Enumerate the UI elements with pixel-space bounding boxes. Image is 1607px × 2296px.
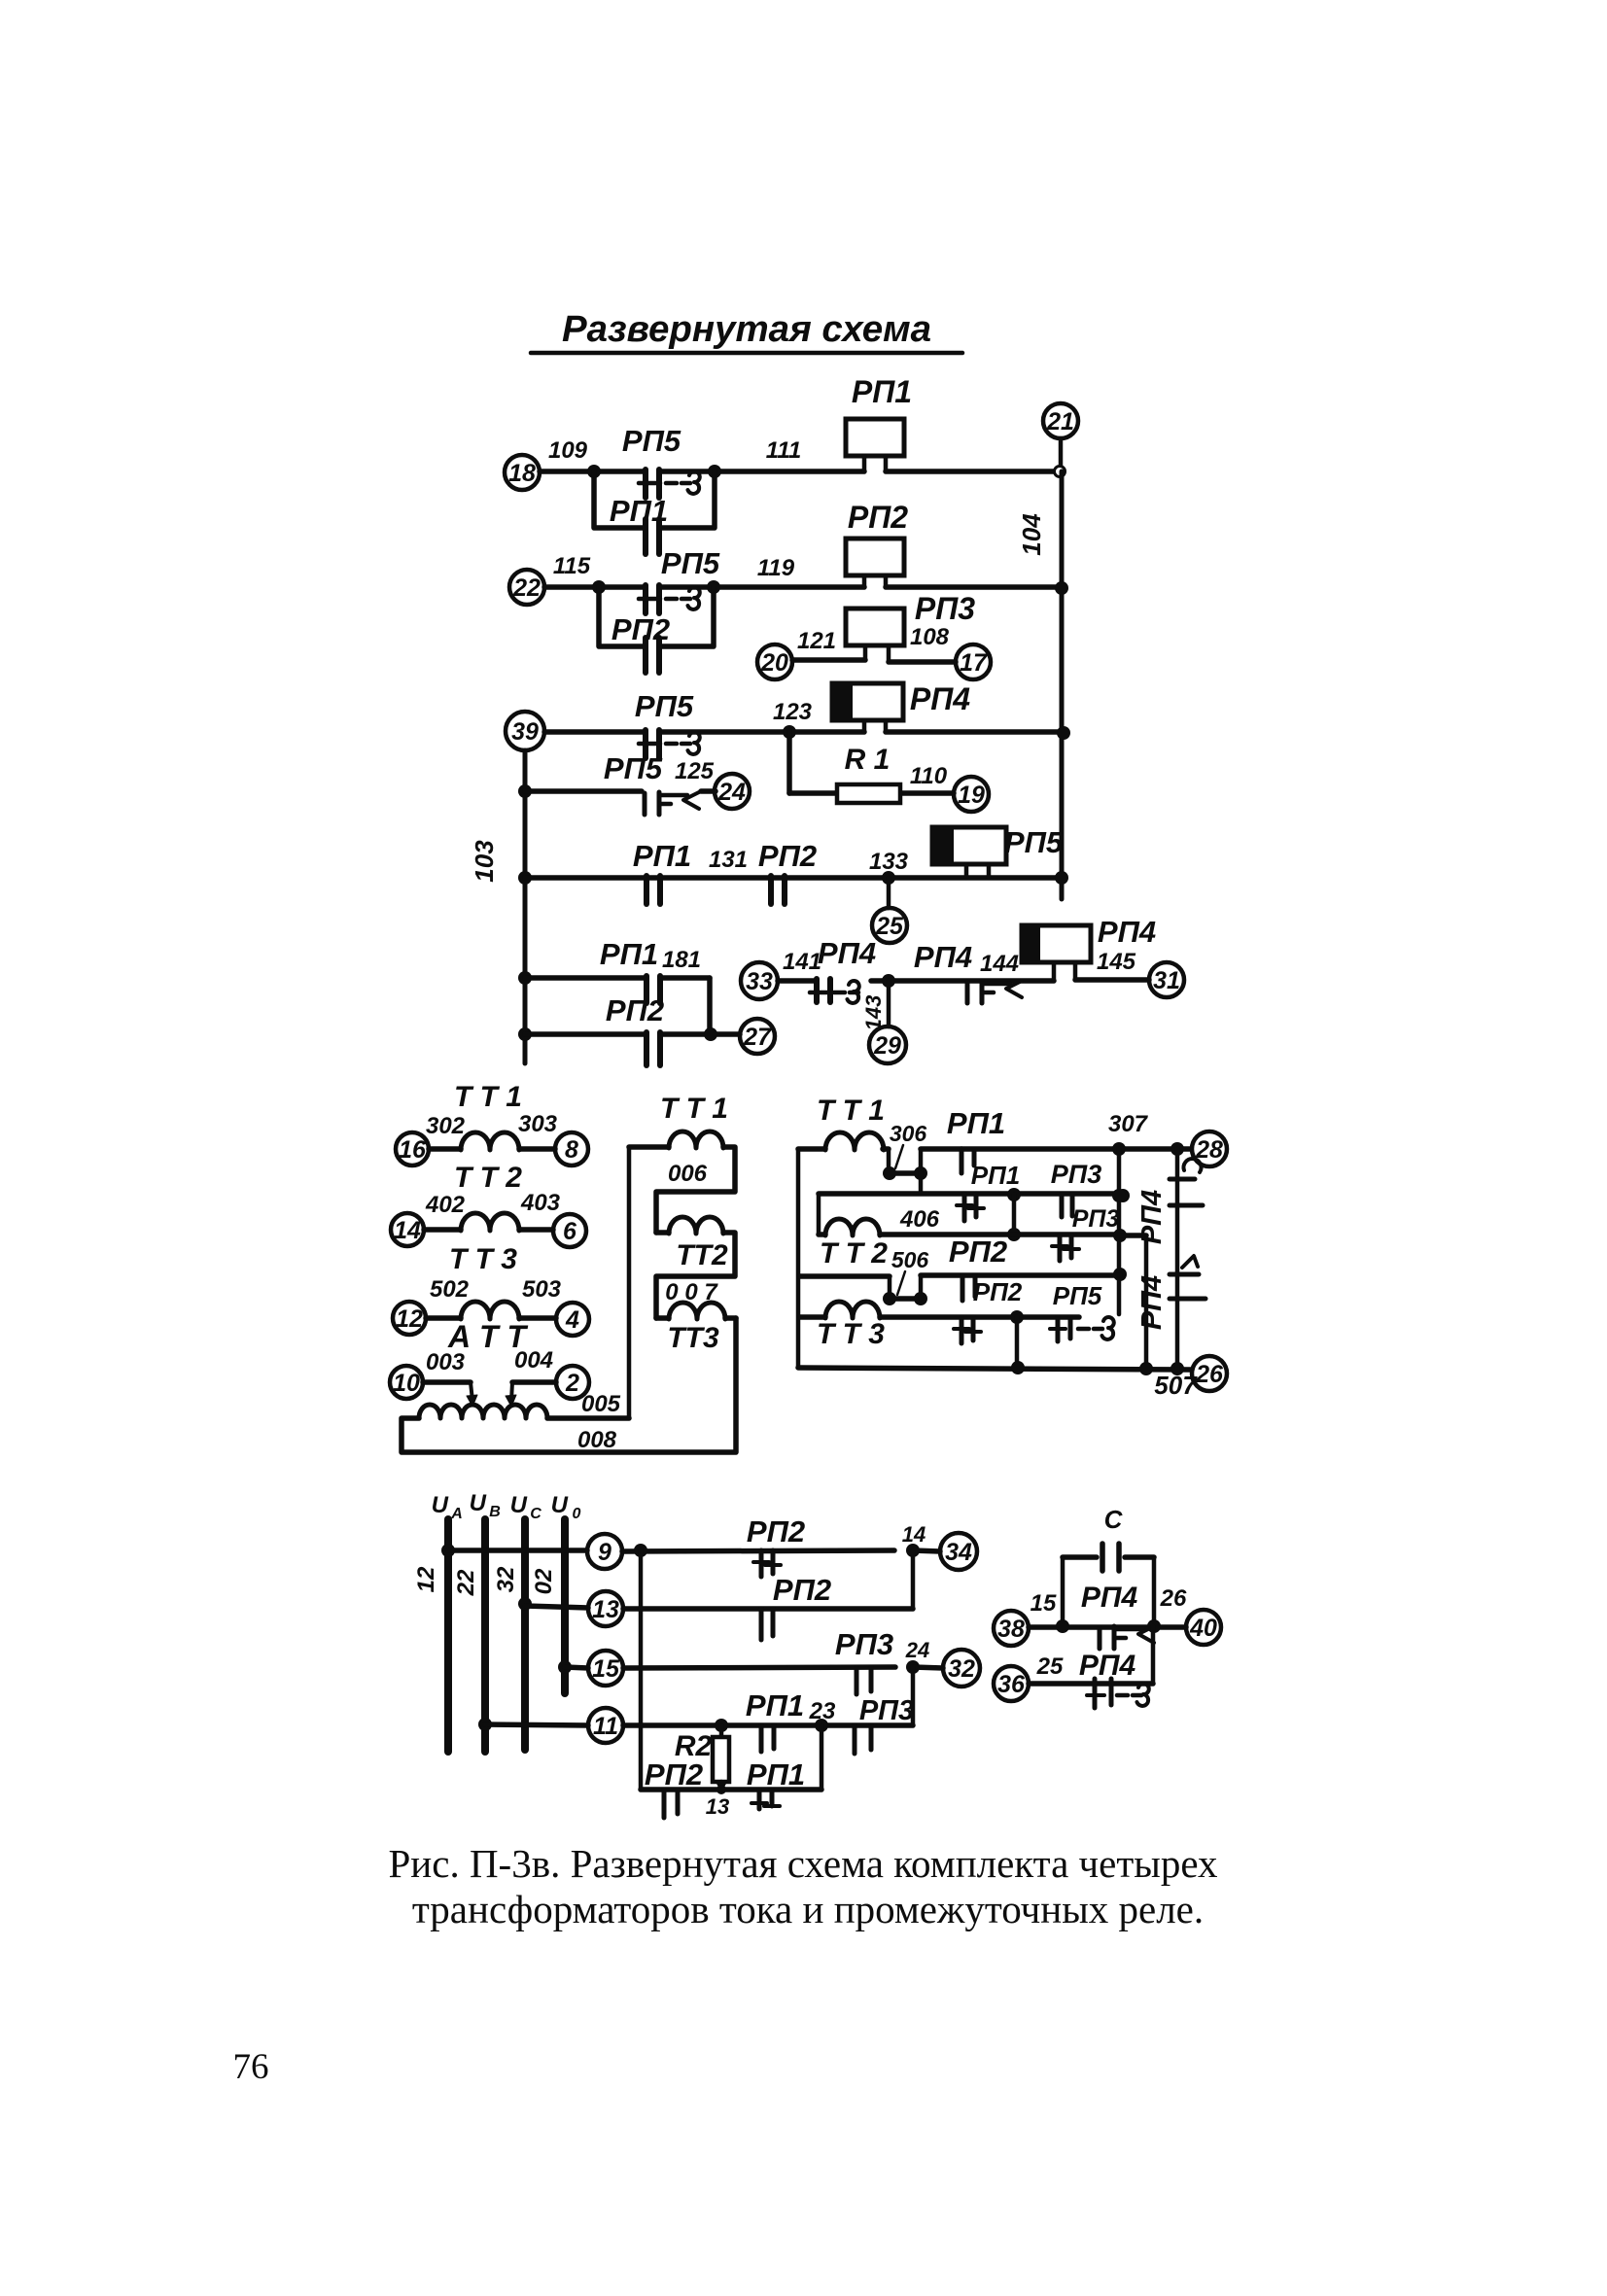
- svg-text:39: 39: [511, 718, 539, 746]
- svg-text:Т Т 2: Т Т 2: [820, 1237, 888, 1270]
- svg-text:РП4: РП4: [1081, 1582, 1138, 1614]
- svg-text:32: 32: [493, 1566, 519, 1592]
- svg-text:РП2: РП2: [645, 1757, 703, 1792]
- branch from 306 down to row 406: [919, 1173, 924, 1194]
- svg-text:A: A: [450, 1506, 463, 1522]
- contact РП2 upper bars: [961, 1275, 965, 1301]
- svg-text:РП2: РП2: [747, 1514, 805, 1548]
- terminal circle 29: [887, 981, 891, 1026]
- svg-text:24: 24: [905, 1638, 929, 1662]
- svg-text:306: 306: [890, 1121, 927, 1146]
- svg-text:144: 144: [980, 951, 1019, 977]
- riser 23: [820, 1725, 824, 1790]
- svg-text:РП2: РП2: [949, 1235, 1007, 1269]
- svg-text:РП1: РП1: [747, 1757, 805, 1792]
- svg-text:Т Т 1: Т Т 1: [660, 1093, 728, 1125]
- svg-text:РП1: РП1: [852, 374, 912, 409]
- svg-text:11: 11: [593, 1713, 618, 1740]
- wire row 123 (РП4 row): [544, 729, 645, 735]
- right bus with РП4 contacts: [1175, 1149, 1180, 1369]
- svg-text:Рис. П-3в. Развернутая схема к: Рис. П-3в. Развернутая схема комплекта ч…: [389, 1841, 1218, 1886]
- svg-text:31: 31: [1153, 967, 1180, 994]
- svg-text:РП4: РП4: [1098, 915, 1156, 949]
- voltage bus Ub: [481, 1519, 489, 1752]
- svg-text:РП4: РП4: [1136, 1190, 1168, 1244]
- row 38-40: [1029, 1624, 1186, 1630]
- vertical 1047 to bottom row: [1015, 1317, 1020, 1368]
- svg-text:21: 21: [1046, 408, 1074, 435]
- svg-text:103: 103: [470, 840, 499, 883]
- column V2 to bottom row: [1120, 1233, 1146, 1238]
- svg-text:22: 22: [453, 1569, 479, 1596]
- contact РП1 lower (crossed bars): [962, 1194, 967, 1221]
- svg-text:ТТ2: ТТ2: [676, 1239, 728, 1271]
- svg-text:РП2: РП2: [758, 839, 817, 873]
- svg-text:РП5: РП5: [1004, 825, 1064, 859]
- svg-text:27: 27: [743, 1024, 772, 1051]
- terminal circle 20: [757, 644, 792, 679]
- svg-text:402: 402: [425, 1192, 466, 1218]
- svg-text:006: 006: [668, 1161, 708, 1187]
- terminal circle 34: [940, 1533, 977, 1570]
- svg-text:26: 26: [1160, 1585, 1187, 1612]
- svg-text:РП3: РП3: [1072, 1205, 1120, 1233]
- svg-text:10: 10: [393, 1370, 420, 1397]
- svg-text:18: 18: [508, 460, 536, 487]
- terminal circle 36: [994, 1666, 1029, 1701]
- svg-text:8: 8: [565, 1136, 578, 1164]
- svg-text:119: 119: [757, 555, 795, 581]
- svg-text:181: 181: [662, 947, 701, 973]
- svg-text:РП2: РП2: [611, 612, 670, 646]
- wire 005: [547, 1415, 629, 1421]
- vertical riser x659: [639, 1550, 644, 1790]
- svg-text:109: 109: [548, 437, 588, 464]
- row РП1 181: [525, 975, 646, 981]
- row 131/133 with РП1 РП2 contacts and РП5 coil: [525, 875, 1062, 881]
- link 306: [883, 1146, 889, 1152]
- svg-text:4: 4: [565, 1306, 579, 1334]
- svg-text:22: 22: [512, 574, 541, 602]
- svg-text:15: 15: [592, 1655, 620, 1683]
- row РП5 125 to node 24: [525, 788, 642, 794]
- terminal circle 33: [741, 962, 778, 999]
- svg-text:РП5: РП5: [635, 689, 694, 723]
- svg-text:0: 0: [573, 1506, 581, 1522]
- svg-text:008: 008: [577, 1427, 617, 1453]
- contact РП3 lower (crossed bars): [1058, 1235, 1063, 1261]
- svg-text:121: 121: [797, 628, 836, 654]
- relay coil РП2: [846, 539, 904, 575]
- parallel contact РП1 under row 18: [594, 471, 645, 528]
- svg-text:Т Т 1: Т Т 1: [454, 1081, 522, 1113]
- right riser 13->14: [911, 1550, 916, 1609]
- svg-text:R 1: R 1: [845, 744, 891, 776]
- svg-text:40: 40: [1189, 1615, 1217, 1642]
- svg-text:19: 19: [958, 782, 985, 809]
- svg-text:РП4: РП4: [910, 681, 970, 716]
- svg-text:РП3: РП3: [1051, 1160, 1101, 1189]
- wire 008 bottom loop: [402, 1318, 736, 1452]
- svg-text:РП1: РП1: [633, 839, 691, 873]
- svg-text:Т Т 1: Т Т 1: [817, 1095, 885, 1127]
- svg-text:33: 33: [746, 968, 773, 995]
- svg-text:32: 32: [948, 1655, 975, 1683]
- svg-text:U: U: [510, 1492, 528, 1518]
- svg-text:РП1: РП1: [971, 1161, 1021, 1190]
- svg-text:9: 9: [598, 1539, 611, 1566]
- svg-text:02: 02: [531, 1568, 557, 1594]
- contact РП3 upper: [1060, 1194, 1065, 1217]
- relay coil РП3: [846, 609, 904, 645]
- svg-text:76: 76: [233, 2047, 269, 2087]
- svg-text:6: 6: [563, 1218, 577, 1245]
- wire node20 - РП3 coil - node17: [792, 657, 865, 663]
- svg-text:14: 14: [902, 1522, 926, 1547]
- svg-text:005: 005: [581, 1391, 621, 1417]
- svg-text:29: 29: [873, 1032, 901, 1060]
- svg-text:РП4: РП4: [1136, 1275, 1168, 1330]
- svg-text:20: 20: [760, 649, 788, 677]
- АТТ winding: [419, 1405, 547, 1418]
- terminal circle 24: [715, 774, 750, 809]
- svg-text:Т Т 3: Т Т 3: [817, 1318, 885, 1350]
- parallel contact РП2 under row 22: [599, 587, 645, 646]
- svg-text:РП5: РП5: [661, 546, 720, 580]
- terminal circle 31: [1149, 962, 1184, 997]
- svg-text:РП2: РП2: [773, 1573, 831, 1607]
- terminal circle 26: [1192, 1356, 1227, 1391]
- svg-text:406: 406: [899, 1206, 940, 1233]
- resistor R1 branch: [786, 732, 792, 793]
- contact РП4 (release) on row 38-40: [1098, 1627, 1102, 1649]
- svg-text:РП2: РП2: [848, 500, 908, 535]
- svg-text:115: 115: [553, 553, 591, 579]
- row РП2 to node 27: [525, 1031, 646, 1037]
- vertical 1043 to ТТ2 row: [1012, 1195, 1017, 1235]
- voltage bus Ua: [444, 1519, 452, 1752]
- svg-text:U: U: [551, 1492, 569, 1518]
- svg-text:С: С: [1104, 1505, 1124, 1534]
- terminal circle 19: [954, 777, 989, 812]
- svg-text:141: 141: [783, 949, 821, 975]
- svg-text:133: 133: [869, 849, 909, 875]
- svg-text:303: 303: [518, 1111, 558, 1137]
- row node 13 with РП2 contact: [518, 1597, 532, 1611]
- АТТ tap from node 2: [512, 1379, 556, 1385]
- relay coil РП4 (flagged, right): [1022, 925, 1091, 962]
- row node 11 / 23 with РП1 and РП3 contacts: [478, 1718, 492, 1731]
- svg-text:125: 125: [675, 758, 715, 784]
- svg-text:131: 131: [709, 847, 748, 873]
- svg-text:12: 12: [396, 1305, 423, 1333]
- bottom row 507: [798, 1368, 1192, 1370]
- svg-text:РП4: РП4: [1079, 1650, 1136, 1682]
- relay coil РП5 (flagged): [932, 827, 1006, 864]
- svg-text:14: 14: [394, 1217, 421, 1244]
- svg-text:503: 503: [522, 1276, 562, 1303]
- svg-text:2: 2: [565, 1370, 579, 1397]
- svg-text:16: 16: [399, 1136, 427, 1164]
- svg-text:502: 502: [430, 1276, 470, 1303]
- svg-text:РП5: РП5: [622, 424, 681, 458]
- contact РП4 upper on right bus: [1170, 1177, 1195, 1182]
- svg-text:17: 17: [960, 649, 988, 677]
- svg-text:25: 25: [1036, 1653, 1064, 1680]
- middle ТТ2 secondary coil: [656, 1230, 669, 1235]
- svg-text:25: 25: [875, 913, 904, 940]
- svg-text:РП2: РП2: [973, 1277, 1023, 1306]
- svg-text:13: 13: [706, 1794, 729, 1819]
- svg-text:C: C: [530, 1506, 541, 1522]
- svg-text:РП5: РП5: [604, 751, 663, 785]
- svg-text:145: 145: [1097, 949, 1136, 975]
- left bus 103 vertical: [523, 750, 528, 1063]
- svg-text:15: 15: [1031, 1590, 1057, 1617]
- wire row 109-111 (node 18 to bus 104): [540, 469, 645, 474]
- svg-text:104: 104: [1017, 513, 1046, 556]
- svg-text:003: 003: [426, 1349, 466, 1375]
- svg-text:РП4: РП4: [914, 940, 972, 974]
- svg-text:004: 004: [514, 1347, 553, 1374]
- svg-text:РП1: РП1: [746, 1688, 804, 1722]
- svg-text:РП1: РП1: [947, 1106, 1005, 1140]
- svg-text:13: 13: [592, 1596, 619, 1623]
- svg-text:26: 26: [1195, 1361, 1224, 1388]
- svg-text:РП3: РП3: [835, 1627, 893, 1661]
- svg-text:B: B: [489, 1504, 501, 1520]
- svg-text:24: 24: [717, 779, 746, 806]
- row node 9 / 14 / 34 with РП2 contact: [441, 1544, 455, 1557]
- terminal circle 38: [994, 1611, 1029, 1646]
- svg-text:506: 506: [891, 1247, 929, 1272]
- svg-text:РП3: РП3: [859, 1695, 914, 1726]
- bottom loop with РП2 and РП1 contacts: [641, 1787, 821, 1792]
- svg-text:38: 38: [997, 1616, 1025, 1643]
- svg-text:РП1: РП1: [610, 494, 668, 528]
- svg-text:34: 34: [945, 1539, 972, 1566]
- svg-text:403: 403: [520, 1190, 561, 1216]
- svg-text:111: 111: [766, 437, 801, 464]
- svg-text:307: 307: [1108, 1111, 1149, 1137]
- svg-text:Т Т 3: Т Т 3: [449, 1243, 517, 1275]
- terminal circle 32: [943, 1650, 980, 1687]
- row РП2 upper: [919, 1275, 924, 1299]
- svg-text:РП3: РП3: [915, 591, 975, 626]
- terminal circle 40: [1186, 1610, 1221, 1645]
- terminal circle 28: [1192, 1131, 1227, 1166]
- voltage bus U0: [561, 1519, 569, 1693]
- row node 15 / 24 / 32 with РП3 contact: [558, 1660, 572, 1674]
- wire row 115-119: [544, 584, 645, 590]
- column V1 from 307: [1117, 1149, 1122, 1314]
- terminal circle 39: [506, 712, 544, 750]
- relay coil РП4 (flagged): [832, 683, 903, 720]
- svg-text:РП5: РП5: [1053, 1281, 1102, 1310]
- svg-text:302: 302: [426, 1113, 466, 1139]
- link 506: [888, 1276, 892, 1299]
- svg-text:U: U: [432, 1492, 449, 1518]
- svg-text:РП1: РП1: [600, 937, 658, 971]
- middle ТТ1 secondary coil: [627, 1147, 632, 1418]
- voltage bus Uc: [521, 1519, 529, 1750]
- svg-text:110: 110: [910, 763, 948, 789]
- terminal circle 25: [887, 878, 891, 908]
- left vertical common wire: [796, 1149, 801, 1368]
- svg-text:Т Т 2: Т Т 2: [454, 1162, 522, 1194]
- svg-text:РП4: РП4: [818, 936, 876, 970]
- terminal circle 21: [1043, 403, 1078, 438]
- right riser 11->24: [911, 1667, 916, 1725]
- svg-text:Развернутая схема: Развернутая схема: [562, 309, 931, 350]
- terminal circle 22: [509, 570, 544, 605]
- svg-text:12: 12: [413, 1566, 439, 1592]
- svg-text:123: 123: [773, 699, 813, 725]
- middle ТТ3 secondary coil: [656, 1315, 669, 1321]
- svg-text:108: 108: [910, 624, 950, 650]
- svg-text:36: 36: [997, 1671, 1026, 1698]
- svg-text:ТТ3: ТТ3: [667, 1322, 719, 1354]
- svg-text:трансформаторов тока и промежу: трансформаторов тока и промежуточных рел…: [412, 1887, 1204, 1931]
- terminal circle 27: [740, 1019, 775, 1054]
- terminal circle 18: [505, 455, 540, 490]
- row 406 with contacts РП1 and РП3: [819, 1191, 1123, 1197]
- relay coil РП1: [846, 419, 904, 456]
- bus 104 vertical: [1060, 471, 1065, 899]
- contact РП4 lower on right bus: [1170, 1272, 1199, 1277]
- row 36 with РП4 arrow contact: [1029, 1681, 1153, 1687]
- АТТ tap from node 10: [423, 1379, 471, 1385]
- svg-text:U: U: [470, 1490, 487, 1516]
- svg-text:РП2: РП2: [606, 993, 664, 1027]
- terminal circle 17: [956, 644, 991, 679]
